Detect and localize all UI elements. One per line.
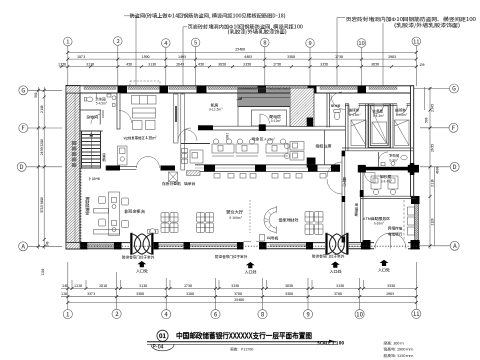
svg-text:入口处: 入口处 [330,269,343,275]
waiting chairs cluster left [197,213,214,233]
svg-text:2750: 2750 [335,55,343,60]
form table [187,171,201,176]
svg-text:存折补登机: 存折补登机 [161,181,181,187]
svg-text:240: 240 [46,241,50,246]
svg-text:2655: 2655 [430,144,435,152]
row A leader right [420,245,450,247]
bottom pier 1 [81,242,88,249]
svg-text:(乳胶漆/外墙乳胶漆饰面): (乳胶漆/外墙乳胶漆饰面) [394,22,460,29]
svg-text:120: 120 [61,292,67,297]
right ticks [429,87,432,247]
bottom wall band [66,240,420,250]
svg-text:3110: 3110 [430,179,435,187]
svg-text:G: G [21,85,25,94]
svg-text:3050: 3050 [371,62,379,67]
duty room 1 partition [366,104,369,148]
svg-text:11: 11 [413,37,419,45]
svg-text:240: 240 [62,284,68,289]
top wall column 1 [118,86,128,93]
svg-text:8-10m²: 8-10m² [374,222,385,226]
svg-text:3130: 3130 [148,62,156,67]
svg-text:3700: 3700 [234,292,242,297]
canopy dashed above top wall [130,81,160,86]
grid stems bottom [68,262,417,310]
svg-text:1873: 1873 [77,55,85,60]
svg-text:理财经理室: 理财经理室 [85,196,91,215]
entrance arrow 4 [380,260,389,266]
svg-text:1350: 1350 [58,62,66,67]
grid stems top [68,46,417,86]
svg-text:入口处: 入口处 [245,270,258,276]
top dimension line L1 (overall 25400) [68,51,417,53]
svg-text:非现金柜台: 非现金柜台 [124,209,146,215]
svg-text:防盗卷帘门位于室外: 防盗卷帘门位于室外 [312,253,345,259]
svg-text:3350: 3350 [243,62,251,67]
counter edge line near partition [181,143,210,145]
svg-text:G: G [452,84,456,93]
teller desks row [212,139,288,156]
svg-text:25400: 25400 [234,298,244,303]
vault walls [369,104,391,148]
machine room bottom wall [198,125,345,130]
bottom pier 5 [237,242,244,249]
grid bubbles bottom [63,309,421,319]
top wall window 3 [208,86,257,89]
title underline thin [147,343,336,345]
top wall window 6 [369,86,397,89]
top wall column 5 [308,86,317,93]
roller shutter dashed line [80,245,420,247]
svg-text:5785 5480: 5785 5480 [39,197,44,214]
bottom pier A left [363,240,371,249]
svg-text:F: F [22,123,25,132]
row G leader right [414,88,450,90]
svg-text:防盗卷帘门位于室外: 防盗卷帘门位于室外 [122,254,155,260]
svg-text:入口处: 入口处 [136,269,149,275]
row F leader right [420,127,449,129]
bottom door opening e1 gap [130,242,154,250]
svg-text:2905: 2905 [386,292,394,297]
svg-text:P-04: P-04 [153,344,165,351]
cash-add desks [371,176,398,195]
row bubbles left [17,86,28,251]
svg-text:SCALE 1:100: SCALE 1:100 [317,340,344,347]
row D leader right [420,166,450,168]
entrance arrow 3 [331,262,340,268]
svg-text:2140: 2140 [39,105,44,113]
toilet wc [87,97,93,102]
right wall lower part (ATM bay) [415,202,419,241]
duty room 2 partition [391,104,394,148]
power room walls [238,88,287,126]
svg-text:1495: 1495 [178,55,186,60]
washroom fixtures [401,155,407,160]
top wall window 2 [128,86,159,89]
top wall column 3 [197,86,207,93]
svg-text:8-9.4m²: 8-9.4m² [381,180,393,184]
stair upper (to 2F) [236,88,290,107]
small wc room [334,110,340,120]
svg-text:1220: 1220 [74,284,82,289]
row bubbles right [449,84,459,250]
top dim labels [58,47,425,67]
waiting chairs cluster far-left [161,213,178,233]
svg-text:填单台: 填单台 [183,181,196,187]
svg-text:3700: 3700 [334,292,342,297]
svg-text:4600: 4600 [435,166,440,174]
storage room wall [80,110,104,131]
right rotated labels [425,104,440,226]
svg-text:2905: 2905 [388,55,396,60]
right vertical dim lines [429,87,431,249]
toilet room walls top-left [80,93,121,129]
svg-text:网络传输: 网络传输 [388,226,403,232]
washroom door arc [379,152,389,162]
svg-text:自动门: 自动门 [342,176,347,186]
svg-text:450: 450 [198,62,204,67]
svg-text:防盗网(砖墙上做Φ14回钢筋防盗网, 横竖间距100见楼板配: 防盗网(砖墙上做Φ14回钢筋防盗网, 横竖间距100见楼板配筋图D-18) [130,13,286,20]
top wall column 4 [258,86,267,93]
svg-text:梁高: 300m: 梁高: 300m [383,341,404,347]
left ticks [37,89,46,248]
vip partition wall pair [174,94,185,170]
svg-text:2045: 2045 [176,62,184,67]
svg-text:3580: 3580 [136,292,144,297]
row A leader left [28,245,62,247]
bottom pier 2 [114,242,122,249]
duty room 1 bed [351,120,366,146]
svg-text:入口处: 入口处 [378,268,391,274]
note leader 3 [336,18,338,87]
bottom pier 9 [411,240,420,249]
entrance e2 threshold [244,240,264,242]
bottom door opening e2 gap [243,242,264,250]
right rooms vestibule wall [345,104,411,106]
left wall inner line [74,86,76,250]
bottom-left corner hatch [66,243,80,249]
corridor wall right of shaft [327,93,330,128]
auto door arcs [327,162,342,177]
svg-text:电话银行: 电话银行 [388,232,403,238]
svg-text:10: 10 [356,309,363,318]
svg-text:D: D [453,162,457,171]
grid bubble 1 top [64,37,421,48]
waiting chairs cluster right [305,212,323,235]
right wall black seg 2 [411,196,420,204]
svg-text:1900: 1900 [225,132,229,140]
teller desks small rects below counter [214,174,326,179]
svg-text:8-160m²: 8-160m² [230,215,243,220]
svg-text:1280: 1280 [41,268,45,276]
notes right [383,341,413,360]
ticket machine [260,235,265,242]
vip double door arcs [137,157,149,169]
desk near partition [190,150,203,163]
svg-text:5-6.3m²: 5-6.3m² [372,114,385,118]
svg-text:3250: 3250 [231,284,239,289]
entrance e1 butterfly door [133,234,152,255]
svg-text:1: 1 [66,38,69,46]
svg-text:A: A [21,241,25,250]
bottom window glazing 1 [87,244,114,247]
vault door arc [374,105,384,115]
vip sofa 3seat [132,96,157,105]
queue dashed line [249,200,251,233]
shaft corner black [307,118,313,127]
toilet sink [112,96,116,100]
cash-add black wall segs [360,190,364,197]
note leader 3b [382,23,384,86]
svg-text:11: 11 [413,309,420,318]
left exterior wall hatched [66,86,80,250]
bottom dimension line A [61,288,417,290]
note leader 1 [135,16,137,86]
top wall window 1 [84,86,116,89]
svg-text:8-4.5m²: 8-4.5m² [396,113,408,117]
top wall window 5 [320,86,357,89]
bottom window glazing 2 [158,245,183,247]
svg-text:3280: 3280 [186,292,194,297]
svg-text:8-12m²: 8-12m² [271,119,282,123]
bottom window glazing 5 [340,245,361,247]
svg-text:9: 9 [306,309,309,318]
vip partition door arc [178,128,191,141]
svg-text:防盗卷帘门位于室外: 防盗卷帘门位于室外 [215,254,248,260]
entrance e3 butterfly door [328,234,347,255]
svg-text:139: 139 [418,62,425,67]
duty room 2 bed [395,120,410,146]
big corridor door arc [331,95,346,110]
entrance e4 door arcs [375,233,391,249]
tick marks L2/L3 [60,51,418,68]
svg-text:3130: 3130 [139,284,147,289]
bottom door opening e4 gap [374,242,408,250]
sub stems bottom [72,280,364,289]
cash-add top wall black [363,167,408,171]
svg-text:3350: 3350 [320,62,328,67]
top wall column 6 [358,86,367,93]
right wall black seg 1 [410,163,415,175]
toilet door arc [91,115,100,125]
left vertical dim lines [37,87,39,249]
svg-text:3500: 3500 [285,292,293,297]
noncash counter vertical [94,192,129,236]
authorization black seg [307,158,316,168]
machine room door arc [185,130,197,142]
vip coffee table [133,108,156,118]
svg-text:2750: 2750 [184,284,192,289]
round table [150,229,156,235]
svg-text:A: A [453,241,457,250]
svg-text:8-4.5m²: 8-4.5m² [350,113,362,117]
svg-text:2010: 2010 [99,284,107,289]
storage door arc [119,111,132,124]
svg-text:2750: 2750 [273,62,281,67]
svg-text:3050: 3050 [218,62,226,67]
bottom window glazing 3 [190,245,237,247]
entrance arrow 1 [137,261,146,267]
svg-text:3230: 3230 [86,62,94,67]
niche dark panel [175,106,177,122]
duty room doors [349,105,360,116]
right rooms left wall [345,104,348,151]
passbook machine box [169,172,178,182]
auto door wall hall east [342,151,345,242]
ATM dashed boundary [403,200,405,240]
teller counter band [195,165,340,172]
counter black seg 1 [204,165,215,172]
svg-text:3050: 3050 [285,284,293,289]
top wall window 2b [169,86,196,89]
svg-text:2655 3280: 2655 3280 [39,139,44,155]
svg-text:vip休息等候区 4-38m²: vip休息等候区 4-38m² [124,135,157,141]
left rotated labels [34,92,50,276]
corridor door arc [330,92,343,105]
svg-text:杂物间: 杂物间 [86,115,99,121]
svg-text:01: 01 [158,330,166,340]
svg-text:画者：P12700: 画者：P12700 [230,347,253,352]
bottom dimension line C (overall) [68,302,417,304]
bottom pier 4 [184,242,191,249]
svg-text:叫号机: 叫号机 [267,237,279,242]
authorization desk wall [324,130,326,165]
svg-text:500: 500 [34,92,38,98]
svg-text:3550: 3550 [387,284,395,289]
counter black seg 3 [308,165,318,172]
svg-text:窗高地: 2900mm: 窗高地: 2900mm [384,347,413,353]
power room door [260,114,270,124]
title bubble [157,330,168,341]
toilet partition [96,94,98,99]
bottom pier 7 [306,242,313,249]
svg-text:1590: 1590 [141,55,149,60]
top wall window 4 [268,86,306,89]
svg-text:500: 500 [425,117,429,123]
svg-text:A-12.5m²: A-12.5m² [209,107,224,112]
bottom window glazing 4 [270,245,306,247]
svg-text:D: D [20,162,24,171]
row G leader left [28,89,62,91]
right rooms bottom wall [342,148,413,151]
svg-text:450: 450 [126,62,132,67]
note leader 2 [182,27,184,86]
row D leader left [26,166,62,168]
svg-text:9: 9 [308,39,311,47]
svg-text:卜16+6: 卜16+6 [88,177,101,182]
svg-text:8-3m²: 8-3m² [390,159,399,163]
svg-text:航高地: 3250mm: 航高地: 3250mm [383,353,413,359]
ATM machines right wall [408,207,415,235]
vault shelf [372,122,387,144]
vip single sofas [133,121,143,130]
title arrow tip [329,340,336,342]
title underline thick [147,341,336,343]
staircase lower-left [82,131,101,168]
svg-text:4405: 4405 [244,55,252,60]
ATM zone left wall [361,199,364,243]
corridor door to cash-add [365,173,376,184]
svg-text:中国邮政储蓄银行XXXXXX支行一层平面布置图: 中国邮政储蓄银行XXXXXX支行一层平面布置图 [176,331,312,342]
svg-text:25400: 25400 [235,47,245,52]
bottom pier 8 [361,242,369,249]
row F leader left [28,127,62,129]
top wall column 2 [160,86,169,93]
bottom pier 3 [153,242,159,249]
wash room wall [378,152,380,167]
svg-text:F: F [452,123,455,132]
entrance arrow 2 [246,262,255,268]
svg-text:低柜理财处: 低柜理财处 [278,218,300,224]
counter black seg 2 [255,165,266,172]
svg-text:3250: 3250 [336,284,344,289]
svg-text:盥洗间: 盥洗间 [331,103,340,108]
cash-add room walls [361,173,417,199]
wall shaft marks [72,141,77,167]
tick marks bottom [66,287,418,304]
svg-text:5: 5 [194,39,197,47]
svg-text:授权台席: 授权台席 [315,143,332,149]
svg-text:3573: 3573 [87,292,95,297]
svg-text:饮水机: 饮水机 [101,152,106,161]
right exterior wall [411,86,414,197]
svg-text:(乳胶漆/外墙乳胶漆饰面): (乳胶漆/外墙乳胶漆饰面) [228,28,287,35]
svg-text:3500: 3500 [287,55,295,60]
hatched shaft zone [290,88,314,127]
authorization desks [290,142,304,151]
bottom dim labels [61,284,395,303]
bottom pier 6 [259,242,267,249]
low counter arc [264,208,276,233]
counter black seg 4 [331,165,340,172]
top dimension line L3 [59,66,418,68]
bottom door opening e3 gap [325,242,348,250]
top wall band [66,86,414,93]
water cooler cabinet [118,146,128,165]
svg-text:1120: 1120 [430,218,435,226]
vip south wall [106,166,175,171]
svg-text:2145: 2145 [430,104,435,112]
svg-text:1: 1 [66,309,69,318]
bottom dimension line B [61,296,417,298]
svg-text:5-4.5m²: 5-4.5m² [95,102,108,106]
self-service machines on wall [182,149,188,153]
top dimension line L2 [68,58,417,60]
top-left corner hatch [66,86,80,93]
svg-text:10: 10 [358,39,364,47]
